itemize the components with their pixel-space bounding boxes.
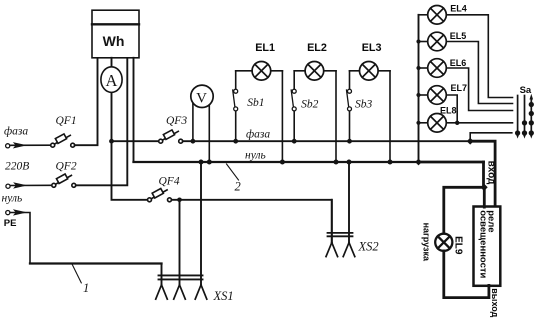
svg-text:QF3: QF3 [166, 115, 187, 127]
wire нуль to relay and load [444, 187, 485, 234]
ammeter A [101, 67, 122, 93]
junction dot EL7/EL8 [455, 121, 459, 125]
junction diamond нуль-реле [481, 184, 488, 191]
svg-text:PE: PE [4, 218, 17, 229]
socket XS2 verticals [348, 162, 350, 243]
socket XS1 bar [159, 274, 203, 276]
svg-text:EL1: EL1 [255, 42, 275, 54]
callout 2 leader [227, 164, 239, 180]
svg-text:нуль: нуль [2, 192, 23, 204]
terminal 220В [6, 182, 27, 188]
socket XS1 forks [156, 285, 207, 299]
svg-text:выход: выход [490, 288, 500, 317]
wire QF1 to meter [75, 58, 98, 145]
wire phase down to QF4 [112, 141, 148, 200]
junction dots фаза bus [109, 39, 488, 202]
wire PE down and right [10, 213, 30, 264]
svg-text:EL2: EL2 [307, 42, 327, 54]
svg-text:нагрузка: нагрузка [422, 223, 432, 262]
junction diamond фаза-вход [467, 138, 474, 145]
svg-text:EL6: EL6 [450, 58, 467, 68]
lamp EL2 [305, 62, 324, 81]
meter wire 4 (neutral out) [133, 58, 135, 162]
svg-text:Wh: Wh [103, 33, 125, 49]
voltmeter V [192, 100, 194, 141]
wire вход (phase to relay) [470, 141, 495, 207]
svg-text:V: V [196, 91, 207, 107]
svg-text:XS1: XS1 [213, 289, 234, 303]
relay box реле освещенности [474, 207, 501, 286]
wire фаза to QF1 [10, 144, 51, 146]
svg-text:освещенности: освещенности [478, 210, 489, 278]
нуль bus [134, 161, 420, 163]
svg-text:QF1: QF1 [56, 115, 77, 127]
svg-text:Sb2: Sb2 [301, 99, 319, 111]
wire QF4 output [172, 200, 332, 243]
junction dot QF4 output [177, 198, 182, 203]
svg-text:Sa: Sa [520, 85, 532, 96]
callout 1 leader [72, 265, 81, 283]
фаза bus [183, 140, 471, 142]
lamp EL9 (нагрузка) [435, 234, 452, 251]
svg-text:EL8: EL8 [440, 105, 457, 115]
svg-text:1: 1 [83, 281, 89, 295]
svg-text:фаза: фаза [4, 126, 28, 138]
svg-text:Sb1: Sb1 [247, 97, 264, 109]
junction dots lamp bus [416, 39, 420, 43]
lamp EL3 [360, 62, 379, 81]
wire PE bottom run [30, 262, 162, 264]
socket XS1 verticals [179, 200, 181, 285]
svg-text:фаза: фаза [246, 128, 270, 140]
socket XS2 forks [326, 243, 355, 257]
фаза bus left segment [112, 140, 159, 142]
lamp EL1 [252, 62, 271, 81]
svg-text:нуль: нуль [245, 149, 266, 161]
wire выход (relay to load) [444, 251, 489, 298]
lamp EL4 row [419, 14, 428, 16]
svg-text:Sb3: Sb3 [355, 99, 373, 111]
wire QF2 to meter wire3 [76, 58, 128, 186]
lamp EL7 row [419, 94, 428, 96]
svg-text:QF4: QF4 [159, 176, 180, 188]
lamp bus EL4-EL8 [418, 15, 420, 162]
junction diamond нуль-lamp bus [415, 159, 422, 166]
svg-text:A: A [106, 71, 118, 90]
svg-text:EL3: EL3 [362, 42, 382, 54]
svg-text:вход: вход [486, 161, 497, 185]
lamp EL8 row [419, 122, 428, 124]
lamp EL5 row [419, 41, 428, 43]
junction dots нуль bus [199, 160, 204, 165]
meter Wh box [92, 10, 139, 58]
svg-text:EL9: EL9 [453, 236, 464, 255]
svg-text:220В: 220В [5, 161, 29, 173]
svg-text:EL5: EL5 [450, 31, 467, 41]
svg-text:XS2: XS2 [358, 240, 379, 254]
svg-text:QF2: QF2 [56, 161, 77, 173]
wire 220В to QF2 [10, 184, 52, 186]
wire фаза stub to Sa [470, 133, 512, 141]
socket XS2 bar [328, 232, 353, 234]
meter wire 2 (phase out through ammeter) [111, 58, 113, 68]
svg-text:EL4: EL4 [450, 4, 467, 14]
svg-text:EL7: EL7 [451, 83, 468, 93]
terminal фаза [6, 142, 27, 148]
lamp EL6 row [419, 67, 428, 69]
terminal нуль/PE [6, 209, 27, 215]
svg-text:2: 2 [235, 180, 241, 194]
